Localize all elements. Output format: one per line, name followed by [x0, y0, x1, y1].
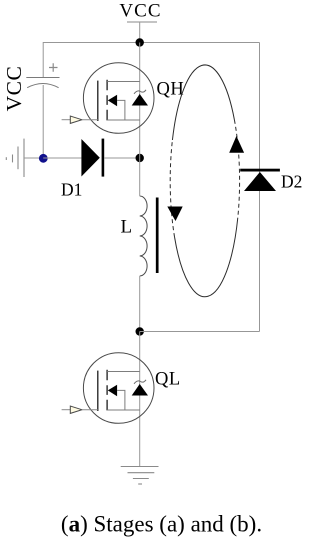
- svg-text:VCC: VCC: [119, 1, 161, 22]
- QH drain stub: [107, 81, 140, 83]
- junction node D1/rail: [136, 154, 144, 162]
- wire rail inductor top: [139, 158, 141, 196]
- MOSFET QL body circle: [83, 353, 154, 424]
- power symbol VCC bar: [127, 21, 157, 23]
- wire top horizontal rail: [43, 42, 259, 44]
- junction node top: [136, 38, 144, 46]
- QL substrate arrow: [108, 385, 117, 397]
- svg-text:D2: D2: [281, 172, 302, 192]
- current loop ellipse right dashed arc: [234, 120, 239, 218]
- QL source stub: [107, 409, 140, 411]
- QH body diode: [132, 94, 148, 106]
- wire node to D1 anode: [43, 157, 81, 159]
- diode D1: [81, 139, 104, 177]
- wire VCC stem: [139, 22, 141, 43]
- ground (left, rotated): [6, 139, 24, 177]
- wire main rail QH section: [139, 43, 141, 159]
- QH gate wire: [82, 119, 98, 121]
- QH substrate link: [117, 100, 125, 120]
- QH body diode cathode tilde: [134, 90, 146, 94]
- wire right rail: [259, 43, 261, 332]
- capacitor C top plate: [26, 77, 59, 79]
- QL substrate link: [117, 390, 125, 410]
- capacitor C curved plate: [27, 84, 58, 88]
- wire rail inductor bottom: [139, 276, 141, 332]
- current loop ellipse top arc: [172, 65, 234, 140]
- inductor core bar: [156, 198, 159, 274]
- svg-text:D1: D1: [61, 180, 82, 200]
- QH gate lead: [62, 119, 71, 121]
- svg-text:(a) Stages (a) and (b).: (a) Stages (a) and (b).: [61, 512, 262, 537]
- diode D2: [244, 172, 276, 191]
- QH substrate arrow: [108, 95, 117, 107]
- QL gate drive arrow: [70, 406, 82, 413]
- MOSFET QH body circle: [83, 63, 154, 134]
- svg-text:QH: QH: [157, 80, 185, 100]
- QL gate wire: [82, 409, 98, 411]
- QL gate lead: [62, 409, 71, 411]
- wire ground to node: [24, 157, 43, 159]
- QL drain stub: [107, 371, 140, 373]
- svg-text:QL: QL: [155, 370, 181, 390]
- inductor L coils: [140, 196, 147, 276]
- QL body diode: [132, 384, 148, 396]
- wire bottom horizontal: [140, 331, 260, 333]
- capacitor C plus sign: [49, 63, 58, 71]
- wire left rail upper: [42, 42, 44, 78]
- junction node switch: [136, 327, 144, 335]
- QH gate plate: [97, 81, 99, 121]
- current loop ellipse left dashed arc: [170, 140, 174, 237]
- QL channel segments: [106, 370, 108, 411]
- QH channel segments: [106, 80, 108, 121]
- svg-text:VCC: VCC: [2, 66, 26, 112]
- loop arrow up (right side): [229, 136, 244, 153]
- QL body diode cathode tilde: [134, 380, 146, 384]
- QH gate drive arrow: [70, 116, 82, 123]
- svg-text:L: L: [121, 217, 133, 238]
- QH source stub: [107, 119, 140, 121]
- wire left rail lower: [42, 85, 44, 158]
- wire D1 cathode to rail: [104, 157, 140, 159]
- node left (navy junction): [39, 154, 48, 163]
- diode D2 cathode bar: [240, 169, 280, 172]
- ground (bottom): [121, 467, 159, 485]
- current loop ellipse bottom arc: [175, 218, 238, 297]
- wire main rail QL section: [139, 332, 141, 467]
- loop arrow down (left side): [167, 207, 182, 222]
- QL gate plate: [97, 371, 99, 411]
